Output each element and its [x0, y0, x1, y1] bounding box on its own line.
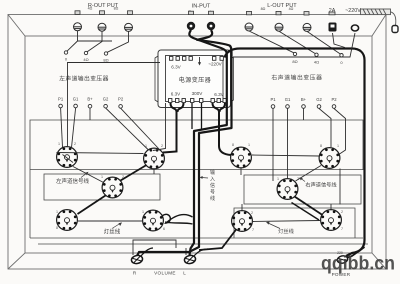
tube socket V6 mid-right: [277, 179, 298, 200]
chord wire V3 to V4: [252, 155, 319, 156]
tube socket V8: [143, 210, 164, 231]
svg-text:7: 7: [341, 227, 343, 231]
ground bus wire lower: [30, 237, 363, 239]
wire B+ left stub: [89, 108, 91, 120]
fuse holder: [329, 23, 337, 32]
tube socket V2: [144, 148, 165, 169]
filament wire V7 to V8: [78, 220, 142, 222]
volume pot R: [131, 254, 144, 264]
twisted pair into V10: [292, 203, 320, 221]
svg-text:B+: B+: [301, 97, 307, 102]
signal wire V1 to V5: [73, 167, 104, 183]
pot R lug wire: [141, 248, 153, 256]
wire G2 to V2: [106, 108, 148, 150]
svg-text:2: 2: [161, 144, 163, 148]
right transformer lead terminals: [271, 105, 336, 109]
svg-text:8: 8: [232, 143, 234, 147]
thin hookup wires: [57, 63, 346, 256]
svg-text:左声道输出变压器: 左声道输出变压器: [59, 75, 109, 83]
tube socket V4 top-right: [319, 148, 340, 169]
wire B+ right stub: [303, 109, 305, 121]
B+ drop center: [192, 103, 202, 129]
svg-text:入: 入: [210, 177, 215, 183]
corner diagonal top-left: [8, 15, 25, 37]
svg-text:VOLUME: VOLUME: [154, 271, 176, 276]
pot lead wires: [133, 240, 176, 255]
filament wire V9 to V10: [253, 221, 320, 222]
chassis inner floor rect: [25, 36, 372, 253]
screw terminals L-OUT PUT (8Ω 4Ω 0): [245, 23, 311, 31]
wire G1 to V1: [72, 108, 76, 148]
filament drop right 6.3V: [213, 103, 232, 155]
filament chain V6 to V10: [295, 197, 323, 216]
harness diagonal to V9: [199, 229, 237, 250]
wire P1 to V1: [61, 108, 63, 148]
annotation input cable (vertical): [210, 169, 215, 202]
svg-text:G1: G1: [285, 97, 291, 102]
power switch knob: [337, 255, 349, 264]
volume pot L: [184, 254, 197, 264]
svg-text:P1: P1: [270, 97, 276, 102]
svg-text:输: 输: [210, 169, 215, 176]
ground bus wire lowest: [38, 243, 368, 245]
fuse lead wire: [333, 33, 346, 48]
thin AC companion wire: [233, 33, 355, 57]
svg-text:B+: B+: [87, 97, 93, 102]
tube socket V7 bottom-left: [57, 210, 78, 231]
svg-text:信: 信: [210, 182, 215, 189]
wire P2 right to V4: [334, 109, 346, 155]
svg-text:8Ω: 8Ω: [261, 7, 266, 11]
svg-text:qqibb.cn: qqibb.cn: [321, 253, 395, 275]
svg-text:1: 1: [142, 210, 144, 214]
svg-text:2: 2: [74, 142, 76, 146]
svg-text:G1: G1: [73, 97, 79, 102]
svg-text:L: L: [183, 271, 186, 276]
corner diagonal bottom-right: [372, 253, 386, 269]
transformer top terminals 6.3V group: [170, 57, 224, 61]
wire harness to POWER switch: [346, 247, 365, 258]
input jacks R and L: [187, 22, 195, 30]
stub V2 down: [153, 170, 155, 175]
stub V3 down: [240, 169, 242, 176]
svg-text:2: 2: [251, 211, 253, 215]
svg-text:4Ω: 4Ω: [289, 7, 294, 11]
svg-text:线: 线: [210, 195, 215, 202]
svg-text:1: 1: [58, 142, 60, 146]
svg-text:1: 1: [101, 175, 103, 179]
screw terminals R-OUT PUT (0 4Ω 8Ω): [74, 23, 133, 32]
filament chain V5 to V7: [78, 196, 106, 215]
svg-text:右声道信号线: 右声道信号线: [305, 181, 336, 189]
filament drop left 6.3V: [163, 103, 184, 153]
wire inside V1: [63, 155, 74, 163]
tube socket V1 top-left: [57, 147, 78, 168]
tag board rect right-bottom: [234, 208, 355, 238]
svg-text:8Ω: 8Ω: [292, 59, 297, 64]
right secondary tap dots 8Ω 4Ω 0: [293, 52, 343, 57]
transformer bottom terminals: [169, 99, 227, 103]
power transformer inner frame: [166, 56, 224, 102]
wires screws to left taps: [67, 31, 129, 53]
wire P2 to V2: [121, 108, 159, 149]
svg-text:左声道信号线: 左声道信号线: [56, 177, 90, 185]
svg-text:4Ω: 4Ω: [314, 60, 319, 65]
svg-text:~220V: ~220V: [208, 62, 222, 67]
svg-text:电源变压器: 电源变压器: [179, 76, 212, 84]
tube socket V10 bottom-right: [321, 210, 342, 231]
mains cord to plug: [361, 9, 396, 26]
corner diagonal top-right: [372, 15, 386, 37]
tag board rect right-mid: [244, 175, 361, 204]
svg-text:灯丝线: 灯丝线: [278, 227, 294, 235]
arrow into transformer: [199, 57, 201, 64]
signal wire V4 to V6: [296, 166, 322, 182]
svg-text:G2: G2: [103, 97, 109, 102]
socket pin number marks: [56, 142, 343, 232]
tag board rect left-mid: [44, 174, 160, 200]
svg-text:右声道输出变压器: 右声道输出变压器: [271, 74, 322, 82]
svg-text:1: 1: [337, 144, 339, 148]
corner diagonal bottom-left: [8, 253, 25, 269]
power transformer mounting ears: [155, 56, 234, 102]
left secondary tap dots 0 4Ω 8Ω: [64, 51, 107, 55]
chord wire V1 to V2: [57, 153, 144, 154]
tube socket V9: [232, 211, 253, 232]
svg-text:~220V: ~220V: [345, 8, 361, 14]
filament chain V2 to V5: [121, 165, 147, 181]
wire G1 right to V6: [287, 109, 289, 179]
tube socket V3: [231, 147, 252, 168]
svg-text:IN-PUT: IN-PUT: [192, 4, 211, 10]
left transformer lead terminals: [59, 104, 123, 108]
svg-text:8: 8: [56, 226, 58, 230]
svg-text:8Ω: 8Ω: [103, 58, 108, 63]
twisted loop V8 to harness: [162, 214, 193, 224]
mains cord grommet: [351, 25, 358, 31]
wire G2 right to V4: [319, 109, 331, 148]
svg-text:7: 7: [252, 228, 254, 232]
svg-text:4Ω: 4Ω: [83, 57, 88, 62]
svg-text:1: 1: [56, 210, 58, 214]
svg-text:2: 2: [341, 210, 343, 214]
stub V9 to board: [241, 204, 243, 210]
svg-text:8Ω: 8Ω: [114, 7, 119, 11]
svg-text:300V: 300V: [192, 91, 204, 96]
stub V10 to board: [330, 204, 332, 209]
tube socket V5 mid-left: [102, 177, 123, 198]
svg-text:号: 号: [210, 190, 215, 196]
mains plug: [392, 26, 398, 33]
wire P1 right to V6: [272, 109, 274, 182]
power transformer outer case: [158, 50, 231, 108]
terminal nuts on back edge: [75, 11, 335, 15]
svg-text:G2: G2: [316, 97, 322, 102]
svg-text:4Ω: 4Ω: [88, 7, 93, 11]
thick harness: input shielded pair: [137, 30, 232, 256]
svg-text:P2: P2: [118, 97, 124, 102]
ground bus rectangle R1: [30, 120, 363, 238]
svg-text:6: 6: [163, 227, 165, 231]
svg-text:6.3V: 6.3V: [171, 65, 181, 70]
svg-text:1: 1: [277, 177, 279, 181]
wire V4 down: [339, 169, 341, 205]
svg-text:8: 8: [320, 144, 322, 148]
svg-text:6.3V: 6.3V: [214, 92, 224, 97]
pot L lug wire: [194, 249, 208, 256]
thick harness: AC run top-right: [225, 49, 365, 257]
svg-text:1: 1: [248, 143, 250, 147]
svg-text:P1: P1: [58, 97, 64, 102]
svg-text:6.3V: 6.3V: [171, 92, 181, 97]
wires screws to right taps: [249, 31, 340, 54]
filament feed wire left 6.3V: [68, 63, 161, 147]
svg-text:P2: P2: [331, 97, 337, 102]
